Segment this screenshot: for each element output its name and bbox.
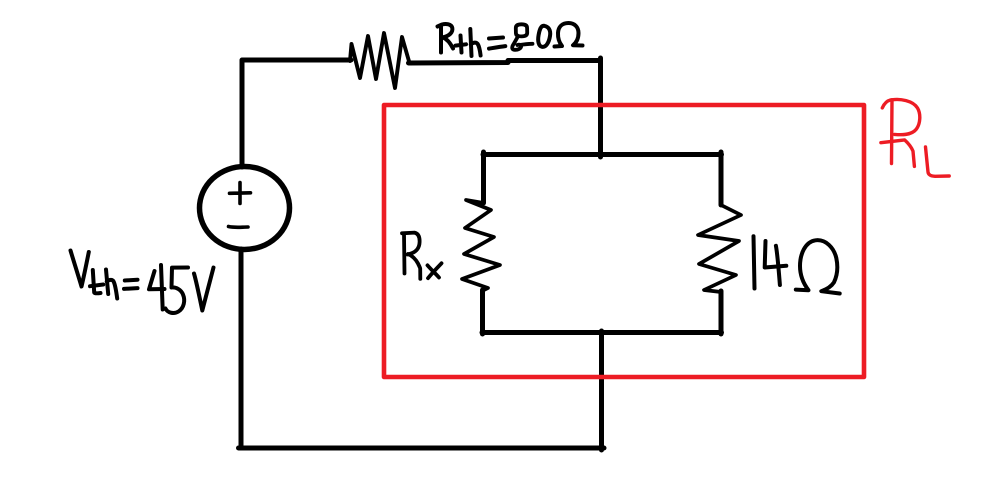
label Rth=20ohm <box>438 23 583 56</box>
label Vth=45V <box>71 251 214 313</box>
wire from bottom wire up to parallel block bottom node <box>599 331 604 450</box>
label 14ohm <box>754 236 840 293</box>
parallel block bottom edge <box>482 330 722 335</box>
wire from source bottom to bottom-left corner <box>239 249 244 448</box>
right branch wire lower <box>719 291 724 334</box>
parallel block top edge <box>483 152 722 157</box>
right branch wire upper <box>719 152 724 205</box>
load box R_L <box>384 105 864 377</box>
minus sign of source <box>229 225 249 229</box>
label Rx <box>402 233 442 279</box>
voltage source V_th <box>200 167 290 250</box>
left branch wire lower <box>480 290 485 334</box>
label R_L <box>881 99 949 176</box>
left branch wire upper <box>481 152 486 203</box>
wire from source top to resistor Rth <box>242 60 351 167</box>
resistor 14 ohm <box>698 205 741 292</box>
resistor Rx <box>462 200 500 291</box>
bottom wire <box>239 446 605 451</box>
wire from top-right corner down to parallel block top node <box>598 58 603 157</box>
wire from resistor Rth to top-right corner <box>409 61 601 64</box>
resistor Rth <box>350 33 410 88</box>
plus sign of source <box>230 183 251 204</box>
